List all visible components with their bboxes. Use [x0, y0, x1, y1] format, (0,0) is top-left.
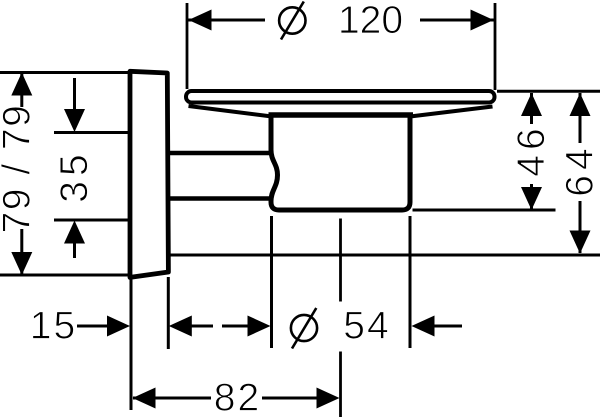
- arrow 79/79 down: [11, 252, 32, 275]
- soap dish slab: [186, 91, 495, 103]
- arrow dia120 left: [189, 10, 212, 31]
- cup top edge: [269, 112, 414, 118]
- arrow dia120 right: [471, 10, 494, 31]
- arrow 82 right: [317, 388, 340, 409]
- dish underside taper left: [189, 106, 273, 117]
- extension line 79/79 top: [0, 71, 128, 74]
- dimension tail 15 right: [191, 325, 213, 328]
- extension line 64 bottom: [169, 254, 600, 257]
- arrow 35 down: [64, 109, 85, 132]
- dimension tail dia54 right: [434, 325, 462, 328]
- extension line 79/79 bottom: [0, 274, 129, 277]
- arrow 64 up: [570, 93, 591, 116]
- svg-text:120: 120: [338, 0, 403, 42]
- wall plate: [130, 71, 168, 277]
- cup body: [271, 115, 410, 210]
- svg-text:64: 64: [559, 143, 600, 196]
- dimension line 46: [530, 93, 533, 124]
- svg-text:15: 15: [30, 304, 77, 347]
- dimension line 15 left: [77, 325, 110, 328]
- dimension line 35 upper tail: [73, 78, 76, 110]
- extension line dia54 right: [409, 216, 412, 348]
- dish underside taper right: [410, 107, 493, 117]
- svg-text:79 / 79: 79 / 79: [0, 104, 39, 234]
- extension line 46/64 top: [497, 90, 600, 93]
- extension line 82 right / cup centerline: [339, 219, 342, 302]
- arm top edge: [167, 151, 271, 156]
- dimension line 82 left: [133, 397, 211, 400]
- dimension line 64: [579, 93, 582, 143]
- extension line dia54 left: [270, 216, 273, 348]
- dimension tail dia54 left: [222, 325, 248, 328]
- arrow 15 left-pointing outside: [169, 316, 192, 337]
- diameter symbol 120: [279, 7, 305, 33]
- arrow 15 right-pointing: [107, 316, 130, 337]
- svg-text:46: 46: [510, 123, 553, 176]
- arrow dia54 left-side right-pointing: [248, 316, 271, 337]
- dimension line 82 right: [262, 397, 317, 400]
- diameter symbol 54: [291, 315, 317, 341]
- arrow 64 down: [570, 231, 591, 254]
- arrow 82 left: [133, 388, 156, 409]
- extension line 35 bottom: [54, 219, 128, 222]
- svg-text:82: 82: [214, 376, 261, 417]
- dimension line dia120 left: [188, 19, 265, 22]
- arrow 79/79 up: [11, 73, 32, 96]
- arrow 46 up: [521, 93, 542, 116]
- dimension line 35 lower tail: [73, 243, 76, 258]
- arrow 46 down: [521, 187, 542, 210]
- arrow dia54 right-side left-pointing: [412, 316, 435, 337]
- arm bottom edge: [167, 196, 271, 201]
- extension line 35 top: [54, 131, 128, 134]
- dimension line dia120 right: [420, 19, 494, 22]
- svg-text:54: 54: [343, 304, 390, 347]
- extension line dia120 right: [494, 3, 497, 90]
- extension line dia120 left: [186, 3, 189, 89]
- arrow 35 up: [64, 221, 85, 244]
- dimension line 79/79: [20, 73, 23, 107]
- extension line 46 bottom: [413, 209, 556, 212]
- extension line 15/82 left: [130, 280, 133, 411]
- extension line 15 right: [167, 277, 170, 349]
- svg-text:35: 35: [53, 149, 96, 202]
